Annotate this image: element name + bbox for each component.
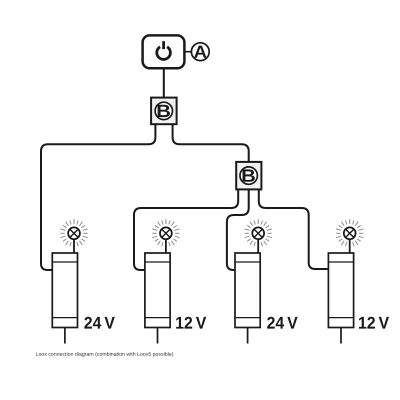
LED driver L4 [328,253,353,344]
LED driver L3 [235,253,260,344]
distributor B2 [236,162,261,190]
lamp icon L2 [152,219,179,254]
LED driver L2 [145,253,170,344]
lamp icon L1 [60,219,87,254]
distributor B1 [151,98,177,125]
LED driver L1 [52,253,77,344]
caption [36,352,173,357]
wire: B1 to driver L1 [41,124,155,270]
wire: B2 to driver L2 [134,189,238,270]
wire: switch A to distributor B1 [163,68,165,97]
lamp icon L4 [336,219,363,254]
value label 12 V (L2) [176,317,206,329]
switch box A (power button) [143,35,185,68]
wire: B2 to driver L3 [227,189,249,270]
value label 24 V (L1) [84,317,114,329]
wire: B1 to distributor B2 [173,124,249,162]
value label 12 V (L4) [359,317,389,329]
wire: B2 to driver L4 [259,189,329,269]
value label 24 V (L3) [267,317,297,329]
lamp icon L3 [245,219,272,254]
label A (circled letter callout) [184,43,209,61]
